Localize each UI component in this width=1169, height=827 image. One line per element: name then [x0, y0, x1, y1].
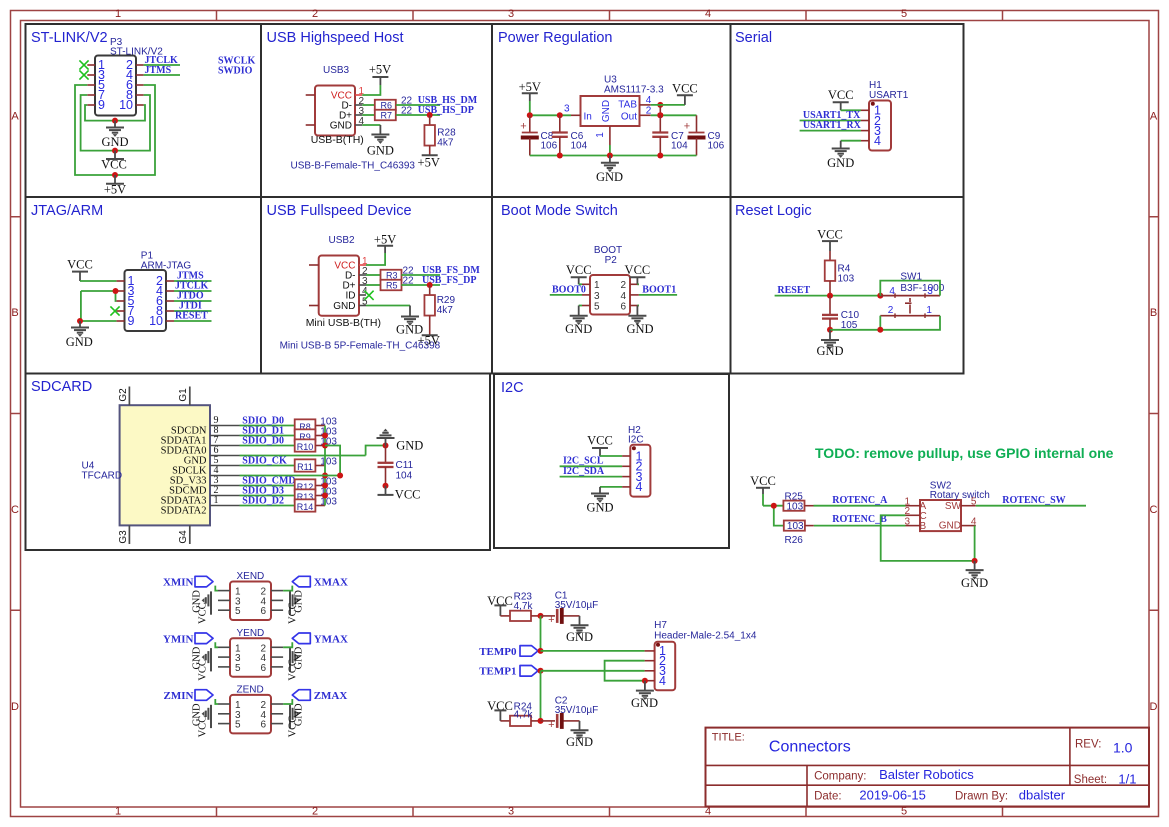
svg-text:USB_HS_DP: USB_HS_DP [418, 105, 474, 116]
wire R23 node down to TEMP0 [540, 616, 542, 651]
XEND left pin stubs 1 3 5 [218, 587, 241, 618]
svg-text:106: 106 [708, 141, 725, 152]
junction VCC node [112, 148, 118, 154]
svg-text:R7: R7 [381, 110, 393, 120]
svg-text:ROTENC_A: ROTENC_A [832, 495, 888, 506]
power symbol +5V above USB2 [374, 233, 396, 254]
svg-text:B: B [1150, 307, 1157, 319]
ground symbol GND right of ZEND [290, 703, 305, 726]
net port flag YMAX [292, 633, 348, 645]
svg-text:GND: GND [566, 630, 593, 644]
wire R3 to USB_FS_DM [401, 274, 440, 276]
power symbol VCC right of XEND [288, 602, 299, 624]
wire JTMS from P1 pin2 [174, 280, 212, 282]
svg-text:GND: GND [565, 322, 592, 336]
svg-text:R26: R26 [785, 535, 804, 546]
svg-text:2: 2 [312, 806, 318, 818]
P3 right pin stubs 2 4 6 8 10 [119, 58, 144, 112]
junction USB_HS_DP pullup [427, 112, 433, 118]
wire USART1_RX to H1 pin3 [800, 130, 861, 132]
power symbol VCC right of P2 [625, 263, 651, 284]
wire ROTENC_SW from SW2 pin5 [976, 505, 1086, 507]
power symbol VCC left of P2 [566, 263, 592, 284]
svg-text:I2C: I2C [628, 435, 644, 446]
ground symbol GND for H7 [631, 681, 658, 710]
svg-text:R3: R3 [386, 270, 398, 280]
junction SW2 GND [972, 558, 978, 564]
wire SW2 pin4 to GND [974, 526, 976, 561]
svg-text:GND: GND [631, 696, 658, 710]
ground symbol GND left of P2 [565, 306, 592, 337]
junction GND node sdcard [383, 443, 389, 449]
junction H7 pin4 GND [642, 678, 648, 684]
svg-text:2: 2 [312, 8, 318, 20]
svg-text:D: D [11, 701, 19, 713]
connector ZEND body [230, 685, 271, 734]
U3 pin 2 Out stub [640, 105, 652, 116]
svg-text:dbalster: dbalster [1019, 788, 1066, 803]
wire P1 pin9 to GND [81, 320, 117, 322]
svg-text:Drawn By:: Drawn By: [955, 790, 1008, 802]
svg-text:SDDATA2: SDDATA2 [161, 506, 207, 517]
wire YMIN to YEND pin1 [215, 642, 218, 647]
power symbol VCC left of ZEND [198, 716, 212, 738]
capacitor C7 104 [652, 115, 688, 155]
switch P2 BOOT body [590, 245, 630, 315]
capacitor C2 35V/10uF [541, 696, 599, 732]
USB2 shield stubs left [309, 265, 319, 306]
svg-text:GND: GND [596, 170, 623, 184]
wire I2C_SCL to H2 pin2 [560, 465, 623, 467]
svg-text:GND: GND [939, 520, 961, 531]
capacitor C9 106 [684, 115, 725, 155]
svg-text:VCC: VCC [198, 602, 209, 624]
svg-text:H7: H7 [654, 620, 667, 631]
svg-text:103: 103 [320, 457, 337, 468]
wire JTDO from P1 pin6 [174, 300, 212, 302]
wire JTCLK from P3 pin 2 [144, 64, 180, 66]
svg-text:103: 103 [838, 273, 855, 284]
wire R7 to USB_HS_DP [396, 114, 440, 116]
wire Out to C7 C9 [651, 114, 697, 116]
net port flag YMIN [163, 633, 213, 645]
junction bus row D3 [322, 493, 328, 499]
junction Out node [657, 112, 663, 118]
svg-text:+5V: +5V [519, 80, 541, 94]
U3 pin 4 TAB stub [640, 95, 652, 106]
wire H2 pin4 to GND [600, 486, 622, 488]
svg-text:35V/10µF: 35V/10µF [555, 705, 599, 716]
no-connect X on P3 pin 3 [79, 70, 88, 79]
junction VCC pullups [771, 503, 777, 509]
svg-text:Boot Mode Switch: Boot Mode Switch [501, 203, 618, 219]
wire loop P3 pin9 to pin10 via GND rail [85, 105, 145, 121]
pushbutton SW1 B3F-1000 [880, 271, 944, 318]
svg-text:USART1: USART1 [869, 90, 909, 101]
U4 shield pin G4 [178, 525, 190, 544]
wire SW1 pin2 pin1 to GND bottom [880, 316, 940, 330]
svg-text:VCC: VCC [198, 659, 209, 681]
wire USB2 pin5 to GND [366, 305, 410, 307]
frame row letters left [11, 111, 19, 714]
wire JTCLK from P1 pin4 [174, 290, 212, 292]
svg-text:6: 6 [620, 301, 626, 312]
svg-text:G4: G4 [178, 530, 189, 544]
svg-text:USB2: USB2 [329, 235, 356, 246]
svg-text:2: 2 [888, 305, 894, 316]
svg-text:GND: GND [101, 135, 128, 149]
wire TEMP1 to H7 pin3 [541, 670, 645, 672]
svg-text:REV:: REV: [1075, 739, 1101, 751]
wire USB3 pin2 to R6 [362, 104, 374, 106]
connector USB2 Mini USB-B body [280, 235, 441, 352]
power symbol +5V above USB3 [369, 63, 391, 86]
power symbol VCC for P1 [67, 257, 93, 281]
junction RESET SW1 [877, 293, 883, 299]
svg-text:JTAG/ARM: JTAG/ARM [31, 203, 103, 219]
wire TEMP0 to H7 pin1 [541, 650, 645, 652]
junction P1 GND [77, 318, 83, 324]
svg-text:SW: SW [945, 501, 962, 512]
svg-text:SWDIO: SWDIO [218, 66, 253, 77]
P3 left pin stubs 1 3 5 7 9 [87, 58, 105, 112]
svg-text:1.0: 1.0 [1113, 739, 1133, 755]
svg-text:VCC: VCC [288, 659, 299, 681]
net port flag ZMAX [292, 690, 347, 702]
svg-text:GND: GND [961, 576, 988, 590]
svg-text:VCC: VCC [625, 263, 651, 277]
svg-text:Mini USB-B(TH): Mini USB-B(TH) [306, 317, 381, 329]
svg-text:RESET: RESET [777, 285, 810, 296]
svg-text:XEND: XEND [237, 571, 265, 582]
wire ZMIN to ZEND pin1 [215, 699, 218, 704]
P2 left pin stubs 1 3 5 [582, 280, 600, 312]
rotary encoder SW2 body [920, 481, 990, 532]
wire U4 GND pin6 to GND symbol [240, 446, 386, 456]
svg-text:USB3: USB3 [323, 65, 350, 76]
svg-text:ZMIN: ZMIN [164, 690, 194, 702]
junction TEMP1 [538, 668, 544, 674]
svg-text:TODO: remove pullup, use GPIO: TODO: remove pullup, use GPIO internal o… [815, 445, 1114, 461]
connector P3 ST-LINK/V2 body [95, 37, 163, 116]
svg-text:BOOT1: BOOT1 [642, 284, 676, 295]
svg-text:Connectors: Connectors [769, 739, 851, 756]
power symbol +5V input [519, 80, 541, 101]
svg-text:USB-B-Female-TH_C46393: USB-B-Female-TH_C46393 [291, 161, 416, 172]
power symbol +5V under P3 [104, 175, 126, 197]
wire TEMP1 node down to R24 [540, 671, 542, 721]
svg-text:G1: G1 [178, 388, 189, 402]
wire USB2 pin3 to R5 [366, 284, 381, 286]
svg-text:GND: GND [330, 121, 352, 132]
svg-text:Reset Logic: Reset Logic [735, 203, 812, 219]
svg-text:3: 3 [927, 286, 933, 297]
wire +5V to U3 In [530, 101, 571, 115]
svg-text:B: B [920, 521, 927, 532]
wire row3 to bus extension [325, 446, 340, 476]
svg-text:SDIO_D0: SDIO_D0 [242, 436, 284, 447]
P2 right pin stubs 2 4 6 [620, 280, 638, 312]
svg-text:GND: GND [66, 335, 93, 349]
junction rail U3 GND [607, 153, 613, 159]
card socket U4 TFCARD body [82, 405, 211, 525]
svg-text:VCC: VCC [672, 82, 698, 96]
svg-text:YEND: YEND [237, 628, 265, 639]
svg-text:3: 3 [508, 8, 514, 20]
capacitor C8 106 [520, 115, 557, 155]
junction rail C6 [557, 153, 563, 159]
svg-text:104: 104 [571, 141, 588, 152]
power symbol +5V below R29 [418, 316, 440, 348]
junction C10 GND [827, 327, 833, 333]
svg-text:1: 1 [214, 495, 219, 506]
ground symbol GND power regulation [596, 156, 623, 185]
resistor R11 103 [295, 459, 325, 472]
svg-text:USB Fullspeed Device: USB Fullspeed Device [267, 203, 412, 219]
U4 shield pin G2 [118, 387, 130, 406]
ground symbol GND for C2 [566, 721, 593, 749]
net port flag XMIN [163, 576, 213, 588]
wire VCC to P1 pin1 [80, 280, 116, 282]
resistor R12 103 [295, 479, 325, 492]
H1 pin stubs 1-4 [861, 104, 881, 148]
junction R23 C1 [538, 613, 544, 619]
ground symbol GND for C1 [566, 616, 593, 644]
svg-text:C: C [11, 504, 19, 516]
svg-text:+5V: +5V [369, 63, 391, 77]
svg-text:R6: R6 [381, 100, 393, 110]
svg-text:TAB: TAB [618, 99, 637, 110]
junction bus row SD_V33 [322, 473, 328, 479]
junction bus row D1 [322, 433, 328, 439]
H7 pin1 polarity dot [656, 643, 660, 647]
junction SW1 GND [877, 327, 883, 333]
svg-text:I2C: I2C [501, 380, 524, 396]
resistor R6 [375, 100, 396, 111]
svg-text:2: 2 [620, 280, 626, 291]
net port flag TEMP1 [479, 666, 538, 678]
svg-text:USB-B(TH): USB-B(TH) [311, 134, 364, 146]
power symbol VCC right of YEND [288, 659, 299, 681]
svg-text:Out: Out [621, 111, 637, 122]
svg-text:1: 1 [594, 280, 600, 291]
svg-text:5: 5 [235, 720, 241, 731]
svg-text:ROTENC_B: ROTENC_B [832, 514, 887, 525]
svg-text:3: 3 [508, 806, 514, 818]
svg-text:104: 104 [396, 471, 413, 482]
svg-text:104: 104 [671, 141, 688, 152]
svg-text:103: 103 [787, 501, 804, 512]
wire USART1_TX to H1 pin2 [800, 120, 861, 122]
ground symbol GND right of P2 [626, 306, 653, 337]
power symbol VCC for H2 [587, 434, 613, 456]
header H1 USART1 body [869, 80, 909, 151]
svg-text:4: 4 [620, 291, 626, 302]
U3 pin 1 GND stub [595, 126, 610, 156]
wire SDIO_CMD to R12 [240, 485, 295, 487]
wire SW2 pin2 common loop [881, 515, 975, 561]
wire SDIO_D0 to R8 [240, 425, 295, 427]
ground symbol GND left of XEND [192, 590, 212, 613]
ZEND left pin stubs 1 3 5 [218, 700, 241, 731]
power symbol VCC sdcard [378, 486, 421, 502]
wire ROTENC_B to SW2 pin3 [814, 525, 906, 527]
I2C section box [494, 374, 729, 548]
svg-text:Power Regulation: Power Regulation [498, 30, 612, 46]
junction TEMP0 [538, 648, 544, 654]
svg-text:3: 3 [564, 104, 570, 115]
svg-text:GND: GND [367, 144, 394, 158]
svg-text:VCC: VCC [395, 488, 421, 502]
wire USB3 pin4 to GND [362, 124, 380, 126]
power symbol VCC left of YEND [198, 659, 212, 681]
ground symbol GND for H2 [586, 487, 613, 515]
svg-text:35V/10µF: 35V/10µF [555, 600, 599, 611]
section grid boxes [26, 24, 964, 374]
ground symbol GND for H1 [827, 141, 854, 170]
power symbol +5V below R28 [418, 146, 440, 170]
frame column numbers top [115, 8, 907, 20]
svg-text:4: 4 [659, 674, 666, 688]
U4 shield pin G1 [178, 387, 190, 406]
svg-text:1: 1 [926, 305, 932, 316]
wire TAB tied to Out [659, 105, 661, 115]
SW2 pin 3 stub [905, 516, 921, 527]
wire pullup bus vertical [324, 426, 326, 506]
resistor R26 103 [784, 521, 814, 547]
ZEND right pin stubs 2 4 6 [260, 700, 283, 731]
capacitor C1 35V/10uF [541, 591, 599, 627]
svg-text:B: B [11, 307, 18, 319]
resistor R9 103 [295, 429, 325, 442]
junction P1 pin3 [113, 288, 119, 294]
svg-text:106: 106 [541, 141, 558, 152]
junction R24 C2 [538, 718, 544, 724]
USB2 right pin stubs 1-5 [359, 256, 368, 308]
svg-text:AMS1117-3.3: AMS1117-3.3 [604, 85, 664, 96]
svg-text:GND: GND [816, 344, 843, 358]
svg-text:VCC: VCC [750, 474, 776, 488]
svg-text:TEMP0: TEMP0 [479, 646, 517, 658]
power symbol VCC reset [817, 227, 843, 251]
svg-text:R25: R25 [785, 492, 804, 503]
frame row letters right [1150, 111, 1158, 714]
svg-text:ZEND: ZEND [237, 685, 264, 696]
svg-text:SDIO_D2: SDIO_D2 [242, 496, 284, 507]
svg-text:+: + [548, 614, 554, 626]
wire RESET from P1 pin10 [174, 320, 212, 322]
svg-text:GND: GND [601, 100, 612, 122]
ground symbol GND at USB2 pin5 [396, 306, 423, 337]
svg-text:TFCARD: TFCARD [82, 471, 123, 482]
wire USB3 pin3 to R7 [362, 114, 374, 116]
svg-text:+5V: +5V [418, 156, 440, 170]
wire H1 pin4 to GND [841, 140, 861, 142]
svg-text:I2C_SDA: I2C_SDA [563, 466, 605, 477]
connector YEND body [230, 628, 271, 677]
wire SDIO_D2 to R14 [240, 505, 295, 507]
junction C7 top [657, 112, 663, 118]
junction USB_FS_DP pullup [427, 282, 433, 288]
ground symbol GND left of ZEND [192, 703, 212, 726]
wire loop P3 pin5 to pin6 via +5V rail [75, 85, 155, 175]
svg-text:SDCARD: SDCARD [31, 379, 92, 395]
svg-text:Mini USB-B 5P-Female-TH_C46398: Mini USB-B 5P-Female-TH_C46398 [280, 341, 441, 352]
svg-text:Serial: Serial [735, 30, 772, 46]
wire VCC to R25 R26 [763, 494, 784, 526]
svg-text:6: 6 [260, 720, 266, 731]
svg-text:VCC: VCC [198, 716, 209, 738]
svg-text:4: 4 [705, 8, 711, 20]
H2 pin stubs 1-4 [622, 449, 642, 494]
svg-text:6: 6 [260, 606, 266, 617]
svg-text:VCC: VCC [288, 716, 299, 738]
junction GND node [112, 118, 118, 124]
power symbol VCC for R24 [487, 699, 513, 721]
resistor R7 [375, 110, 396, 121]
P1 left pin stubs 1 3 5 7 9 [116, 274, 134, 328]
svg-text:2019-06-15: 2019-06-15 [859, 788, 926, 803]
svg-text:5: 5 [235, 606, 241, 617]
SW2 pin 5 stub [961, 496, 977, 507]
wire ROTENC_A to SW2 pin1 [814, 505, 906, 507]
wire H7 pin2 to pin4 loop [605, 661, 645, 681]
svg-text:XMAX: XMAX [314, 577, 348, 589]
svg-text:R11: R11 [297, 462, 313, 472]
svg-text:4: 4 [889, 286, 895, 297]
svg-text:VCC: VCC [828, 88, 854, 102]
svg-text:Date:: Date: [814, 790, 842, 802]
ground symbol GND at USB3 pin4 [367, 125, 394, 158]
header H7 Header-Male body [654, 620, 757, 690]
svg-text:3: 3 [594, 291, 600, 302]
ground symbol GND right of YEND [290, 646, 305, 669]
svg-text:GND: GND [827, 156, 854, 170]
power symbol VCC for R23 [487, 594, 513, 616]
junction +5V C8 [527, 112, 533, 118]
wire +5V to USB3 pin1 [362, 85, 380, 95]
junction bus row D0 [322, 443, 328, 449]
junction C6 In [557, 112, 563, 118]
wire VCC to H1 pin1 [841, 109, 861, 111]
resistor R10 103 [295, 439, 325, 452]
wire TAB to VCC [651, 104, 685, 106]
svg-text:RESET: RESET [175, 311, 208, 322]
resistor R5 [381, 280, 402, 291]
svg-text:Header-Male-2.54_1x4: Header-Male-2.54_1x4 [654, 631, 757, 642]
svg-text:USB Highspeed Host: USB Highspeed Host [267, 30, 404, 46]
svg-text:GND: GND [626, 322, 653, 336]
svg-text:VCC: VCC [67, 257, 93, 271]
power symbol VCC left of XEND [198, 602, 212, 624]
U4 right pin stubs 9-1 with names [161, 415, 240, 517]
svg-text:BOOT0: BOOT0 [552, 284, 586, 295]
power symbol VCC right of ZEND [288, 716, 299, 738]
junction SD_V33 bus2 [337, 473, 343, 479]
wire ground rail [530, 155, 697, 157]
header H2 I2C body [628, 425, 650, 497]
svg-text:P2: P2 [605, 255, 618, 266]
power symbol VCC output [672, 82, 698, 105]
YEND left pin stubs 1 3 5 [218, 643, 241, 674]
svg-text:In: In [584, 111, 592, 122]
svg-text:ST-LINK/V2: ST-LINK/V2 [31, 30, 108, 46]
SW2 pin 2 stub [905, 506, 921, 517]
SW2 pin 1 stub [905, 496, 921, 507]
svg-text:GND: GND [396, 439, 423, 453]
svg-text:4k7: 4k7 [437, 305, 454, 316]
svg-text:3: 3 [905, 516, 911, 527]
